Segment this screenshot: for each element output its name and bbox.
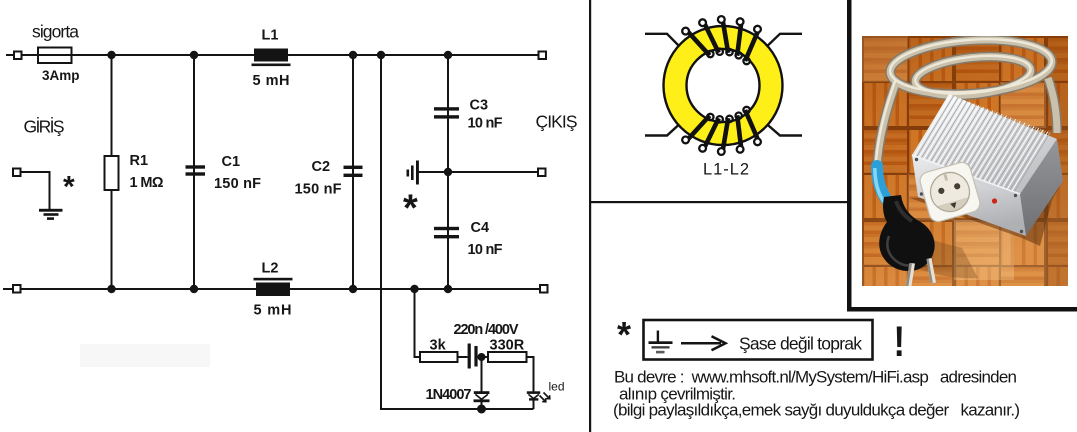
- wire D1 branch: [481, 357, 483, 392]
- node bottom 3k feed: [410, 285, 418, 293]
- wire D1 to bottom: [481, 401, 483, 410]
- black schuko plug: [879, 195, 934, 271]
- wire top rail right of L1: [288, 54, 539, 56]
- wire input earth: [21, 172, 50, 209]
- plug pins: [906, 263, 916, 289]
- toroid lead top-right: [762, 34, 802, 51]
- svg-text:C4: C4: [471, 220, 490, 236]
- inductor L1 core bar: [254, 49, 288, 62]
- svg-text:C3: C3: [470, 98, 489, 114]
- node snubber mid: [478, 353, 486, 361]
- terminal input earth: [13, 169, 21, 177]
- chassis output bar tall: [416, 161, 419, 185]
- svg-text:10 nF: 10 nF: [468, 116, 503, 132]
- terminal output line: [539, 52, 547, 60]
- capacitor C2 plate top: [344, 166, 363, 169]
- terminal input line: [14, 52, 22, 60]
- wire output earth: [418, 171, 538, 173]
- capacitor C3 plate top: [434, 107, 459, 110]
- capacitor C1 plate top: [186, 165, 206, 168]
- node top C3: [444, 51, 452, 59]
- resistor 330R body: [488, 352, 527, 362]
- wire 3k to C5: [458, 356, 468, 358]
- svg-text:3k: 3k: [430, 338, 447, 354]
- svg-text:*: *: [617, 314, 631, 355]
- note box Sase degil toprak: [644, 320, 873, 360]
- red led on box: [992, 198, 997, 203]
- toroid core ring: [664, 26, 783, 145]
- svg-text:L1-L2: L1-L2: [703, 161, 749, 179]
- inductor L2 core bar: [256, 283, 290, 297]
- capacitor C5 220n plate right: [474, 346, 477, 367]
- capacitor C5 220n plate left: [468, 344, 471, 369]
- wire top rail left stub: [6, 54, 14, 56]
- capacitor C2 plate bottom: [344, 174, 363, 177]
- node bottom C4: [444, 285, 452, 293]
- filter box top face: [912, 94, 1057, 194]
- svg-text:220n /400V: 220n /400V: [454, 322, 519, 338]
- svg-text:*: *: [403, 188, 418, 230]
- toroid lead top-left: [645, 34, 684, 51]
- terminal input neutral: [13, 285, 21, 293]
- terminal output earth: [538, 169, 546, 177]
- node top C2: [349, 51, 357, 59]
- wire bottom rail right of L2: [290, 288, 540, 290]
- node bottom C1: [190, 285, 198, 293]
- toroid winding end loops: [682, 16, 761, 155]
- toroid windings: [688, 22, 757, 149]
- node bottom C2: [349, 285, 357, 293]
- fuse F1 body: [38, 48, 72, 64]
- node top C1: [190, 51, 198, 59]
- svg-text:1N4007: 1N4007: [426, 387, 472, 403]
- node top snubber feed: [377, 51, 385, 59]
- photo frame bottom border: [847, 307, 1077, 312]
- wire bottom rail left stub: [3, 288, 13, 290]
- svg-text:10 nF: 10 nF: [468, 242, 503, 258]
- photo frame left border: [847, 0, 852, 312]
- svg-text:C2: C2: [312, 159, 331, 175]
- svg-text:(bilgi paylaşıldıkça,emek sayğ: (bilgi paylaşıldıkça,emek sayğı duyulduk…: [613, 401, 1020, 420]
- node snubber bottom: [477, 405, 486, 414]
- svg-text:led: led: [549, 380, 565, 394]
- svg-text:ÇIKIŞ: ÇIKIŞ: [536, 112, 578, 132]
- toroid box bottom border: [589, 201, 849, 203]
- node top R1: [107, 51, 115, 59]
- wire C5 to 330R: [478, 356, 489, 358]
- filter box front face: [912, 155, 1026, 236]
- faint scan artifact patch: [80, 344, 210, 367]
- svg-text:R1: R1: [130, 153, 149, 169]
- inductor L1 under line: [252, 64, 291, 67]
- chassis output bar mid: [411, 166, 414, 181]
- ground input bar3: [47, 217, 54, 220]
- wire 3k feed: [415, 289, 421, 357]
- wire top rail: [21, 54, 254, 56]
- divider line: [589, 0, 591, 432]
- svg-text:Şase değil toprak: Şase değil toprak: [739, 334, 862, 354]
- svg-text:*: *: [63, 171, 75, 204]
- svg-text:5 mH: 5 mH: [253, 73, 290, 89]
- svg-text:330R: 330R: [490, 338, 525, 354]
- capacitor C4 plate bottom: [434, 235, 459, 238]
- wire R1 branch: [111, 55, 113, 289]
- led light arrows: [540, 396, 546, 402]
- diode D1 1N4007: [474, 393, 490, 401]
- top face ribs: [917, 96, 1051, 194]
- svg-text:C1: C1: [222, 154, 241, 170]
- svg-text:150 nF: 150 nF: [295, 182, 342, 198]
- node earth mid C3 C4: [444, 168, 452, 176]
- node bottom R1: [107, 285, 115, 293]
- inductor L2 over line: [254, 278, 293, 281]
- filter box right face: [1020, 139, 1063, 236]
- wire C1 branch: [193, 55, 195, 289]
- capacitor C1 plate bottom: [186, 172, 206, 175]
- corner screws: [915, 158, 1023, 233]
- wire led to bottom: [533, 400, 535, 409]
- arrow in note box: [681, 336, 726, 350]
- wire C3 C4 branch: [447, 55, 449, 289]
- diode LED1: [527, 393, 550, 402]
- wire C2 branch: [352, 55, 354, 289]
- floor shadow under box: [910, 182, 1062, 246]
- svg-text:1 MΩ: 1 MΩ: [130, 175, 164, 191]
- svg-text:3Amp: 3Amp: [42, 68, 80, 83]
- svg-text:!: !: [894, 318, 905, 365]
- svg-text:sigorta: sigorta: [32, 22, 79, 42]
- braided mains cable coil: [876, 34, 1058, 170]
- capacitor C3 plate bottom: [434, 115, 459, 118]
- parquet floor: [862, 36, 1068, 286]
- toroid L1-L2: [645, 16, 802, 178]
- ground input bar2: [44, 213, 59, 216]
- svg-text:5 mH: 5 mH: [254, 303, 292, 319]
- wire vertical feed to RC snubber: [381, 55, 534, 409]
- svg-text:L2: L2: [262, 261, 279, 277]
- svg-text:L1: L1: [262, 28, 279, 44]
- toroid lead bottom-right: [762, 120, 802, 136]
- terminal output neutral: [540, 285, 548, 293]
- resistor R1 body: [105, 156, 119, 190]
- wire bottom rail: [21, 288, 256, 290]
- toroid lead bottom-left: [645, 120, 684, 136]
- ground input bar1: [39, 209, 63, 212]
- schuko socket: [918, 160, 982, 223]
- earth symbol in note box: [649, 331, 673, 354]
- svg-text:GİRİŞ: GİRİŞ: [24, 117, 65, 137]
- svg-text:150 nF: 150 nF: [214, 176, 261, 192]
- blue cable sleeve: [877, 166, 889, 203]
- resistor 3k body: [420, 352, 458, 362]
- chassis output bar short: [407, 170, 410, 177]
- wire 330R to led: [527, 357, 534, 392]
- capacitor C4 plate top: [434, 227, 459, 230]
